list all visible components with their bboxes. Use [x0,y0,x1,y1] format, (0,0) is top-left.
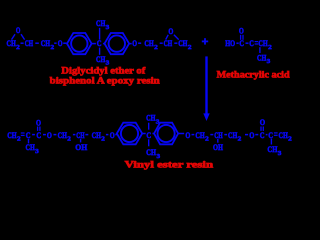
epoxide ring O (right glycidyl group) [166,26,179,40]
carbonyl O [260,117,266,127]
bond to OH [217,139,219,143]
CH3 group below [146,147,161,160]
bond [255,134,258,136]
svg-text:O: O [110,130,115,140]
CH3 group below [96,54,110,67]
bond [73,134,76,136]
svg-text:C: C [249,38,254,48]
epoxide ring O (left glycidyl group) [12,25,25,40]
benzene ring 3 [117,123,142,145]
svg-text:O: O [239,25,244,35]
HO group (methacrylic acid) [225,38,235,48]
svg-text:C: C [268,130,273,140]
C=C double bond [255,42,259,44]
svg-text:CH: CH [26,142,36,152]
label: bisphenol A epoxy resin [50,76,161,87]
svg-text:CH: CH [92,130,102,140]
ester O [47,130,52,140]
svg-text:Vinyl ester resin: Vinyl ester resin [125,160,214,171]
bond to CH3 [270,139,272,145]
benzene ring 2 [105,33,130,54]
CH group [164,38,173,48]
label: Methacrylic acid [217,70,291,81]
bond [224,134,227,136]
bond [245,134,248,136]
bond [103,43,105,45]
svg-text:CH: CH [96,18,106,28]
C=O double bond [38,127,40,131]
CH2 group [144,38,157,51]
svg-text:CH: CH [178,38,188,48]
bond [210,134,213,136]
bond [192,134,195,136]
svg-text:CH: CH [267,144,277,154]
svg-text:C: C [26,130,31,140]
svg-text:CH: CH [7,130,17,140]
svg-text:O: O [36,118,41,128]
carbonyl C [36,130,41,140]
bond [236,42,238,44]
label: Vinyl ester resin [125,160,214,171]
svg-text:2: 2 [268,44,272,51]
carbonyl O [239,25,244,35]
svg-text:CH: CH [164,38,173,48]
OH group [213,142,223,152]
bond [266,134,268,136]
bond [54,134,57,136]
bond [142,133,146,135]
bond [63,42,66,44]
CH2 group [7,38,20,51]
svg-text:O: O [185,130,190,140]
bond to OH [80,139,82,143]
svg-text:CH: CH [144,38,154,48]
svg-text:O: O [249,130,254,140]
svg-text:O: O [47,130,52,140]
bond [246,42,249,44]
svg-text:C: C [260,130,265,140]
bond [178,133,184,135]
svg-text:O: O [132,38,137,48]
OH group [75,142,87,152]
CH3 group [267,144,282,157]
CH3 group [26,142,40,155]
svg-text:CH: CH [76,130,85,140]
bond [160,42,163,44]
CH2 group [58,130,71,143]
bond [129,43,132,45]
svg-text:2: 2 [16,44,20,51]
svg-text:2: 2 [288,136,292,143]
bond C-CH3 down [99,48,101,55]
svg-text:CH: CH [58,130,68,140]
svg-text:2: 2 [101,136,105,143]
CH2 group [41,38,54,51]
bond [54,42,56,44]
bond [85,134,88,136]
svg-text:CH: CH [258,38,268,48]
CH3 group [257,52,271,65]
CH2 group [178,38,191,51]
ether O [132,38,137,48]
bond [35,42,39,44]
svg-text:CH: CH [25,38,34,48]
CH2 group (methacrylate end) [7,130,20,143]
C=O double bond [261,127,263,131]
svg-text:2: 2 [17,136,21,143]
svg-text:CH: CH [146,113,156,123]
bond [138,42,141,44]
carbonyl C [260,130,265,140]
CH group [25,38,34,48]
ether O [58,38,63,48]
bond to CH3 [259,47,261,53]
svg-text:OH: OH [75,142,87,152]
svg-text:CH: CH [195,130,205,140]
C=C double bond [21,133,25,135]
benzene ring 4 [154,123,178,145]
bond C-CH3 up [148,123,150,130]
ether O [110,130,115,140]
CH2 group [195,130,208,143]
svg-text:C: C [36,130,41,140]
svg-text:2: 2 [188,44,192,51]
carbonyl O [36,118,41,128]
svg-text:CH: CH [279,130,289,140]
CH group [214,130,223,140]
C=C double bond [274,133,278,135]
reaction arrow [203,56,209,121]
bond [92,43,96,45]
svg-text:bisphenol A epoxy resin: bisphenol A epoxy resin [50,76,161,87]
bond [32,134,35,136]
CH3 group above [96,18,110,31]
svg-text:CH: CH [214,130,223,140]
svg-text:2: 2 [51,44,55,51]
svg-text:2: 2 [238,136,242,143]
bond [115,134,116,136]
ether O [185,130,190,140]
svg-text:O: O [168,26,173,36]
plus sign [202,38,208,44]
svg-text:HO: HO [225,38,235,48]
bond [21,42,24,44]
svg-text:2: 2 [205,136,209,143]
CH2 group [92,130,105,143]
svg-text:OH: OH [213,142,223,152]
svg-text:CH: CH [41,38,51,48]
svg-text:CH: CH [228,130,238,140]
CH2 group [228,130,241,143]
C=O double bond [241,35,243,40]
bond [43,134,46,136]
svg-text:CH: CH [7,38,17,48]
bond [106,134,109,136]
CH group [76,130,85,140]
svg-text:2: 2 [67,136,71,143]
benzene ring 1 [67,33,92,54]
svg-text:Methacrylic acid: Methacrylic acid [217,70,291,81]
ester O [249,130,254,140]
bond C-CH3 up [99,28,101,40]
svg-text:2: 2 [154,44,158,51]
bond [153,133,155,135]
svg-text:C: C [146,130,151,140]
CH3 group above [146,113,160,126]
bond [174,42,177,44]
bond to CH3 [28,139,30,144]
svg-text:CH: CH [96,54,106,64]
quaternary C [97,38,102,48]
CH2 group [279,130,292,143]
svg-text:CH: CH [146,147,156,157]
vinyl C [26,130,31,140]
svg-text:O: O [16,25,21,35]
svg-text:CH: CH [257,52,267,62]
quaternary C [146,130,151,140]
label: Diglycidyl ether of [61,65,146,76]
bond C-CH3 down [148,139,150,146]
vinyl C [249,38,254,48]
vinyl C [268,130,273,140]
svg-text:O: O [260,117,266,127]
svg-text:O: O [58,38,63,48]
CH2 group [258,38,271,51]
carbonyl C [239,38,244,48]
